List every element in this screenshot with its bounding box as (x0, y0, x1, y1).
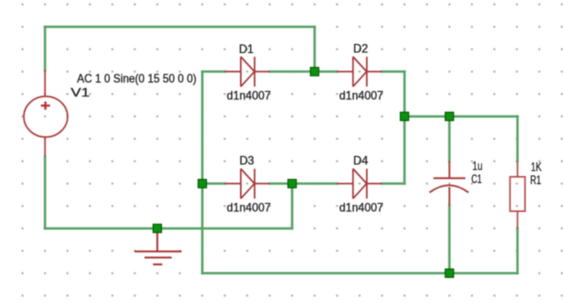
diode D1 (225, 57, 270, 87)
wire D2 cathode to corner (382, 70, 405, 72)
svg-text:C1: C1 (471, 172, 482, 186)
svg-text:1K: 1K (531, 160, 542, 174)
wire neutral rail up to D3/D4 junction (291, 184, 293, 229)
svg-text:d1n4007: d1n4007 (339, 89, 383, 103)
wire J1 to D2 anode (315, 70, 338, 72)
node ground junction (153, 224, 161, 232)
svg-text:D2: D2 (353, 42, 368, 56)
diode D3 (225, 169, 270, 199)
svg-text:AC 1 0 Sine(0 15 50 0 0): AC 1 0 Sine(0 15 50 0 0) (77, 72, 197, 86)
wire D4 corner up to node J2 (403, 116, 405, 183)
node C1 top junction (445, 112, 453, 120)
diode D2 (337, 57, 382, 87)
wire left bridge column D1 anode to D3 anode (201, 72, 203, 184)
capacitor C1 (430, 161, 469, 206)
wire C1 top (448, 116, 450, 161)
wire D2 corner down to node J2 (403, 72, 405, 117)
node D1/D3 anode junction (198, 179, 206, 187)
wire R1 top (516, 116, 518, 161)
wire bottom rail (202, 272, 517, 274)
wire positive output rail (405, 115, 518, 117)
node J1 (V1+ / D1 cathode / D2 anode) (310, 67, 318, 75)
svg-text:d1n4007: d1n4007 (339, 201, 383, 215)
wire top rail drop to node J1 (313, 27, 315, 72)
node J2 (D2/D4 cathodes to output rail) (400, 112, 408, 120)
wire D3/D4 junction to D4 anode (292, 182, 337, 184)
wire C1 bottom (448, 206, 450, 273)
wire top rail (45, 26, 315, 28)
svg-text:d1n4007: d1n4007 (227, 201, 271, 215)
V1 plus sign (41, 102, 50, 110)
wire D3 anode from junction (202, 182, 224, 184)
svg-text:R1: R1 (530, 173, 541, 187)
wire neutral rail (45, 227, 292, 229)
node C1 bottom junction (445, 269, 453, 277)
wire D4 cathode to corner (382, 182, 405, 184)
wire left bridge column down to bottom rail (201, 184, 203, 274)
wire to D1 anode (202, 70, 224, 72)
wire R1 bottom (516, 228, 518, 273)
svg-text:V1: V1 (71, 85, 90, 99)
svg-text:D1: D1 (239, 42, 254, 56)
resistor R1 (510, 161, 525, 228)
svg-text:D3: D3 (240, 154, 255, 168)
svg-text:D4: D4 (353, 153, 368, 167)
node D3 cathode / D4 anode junction (288, 179, 296, 187)
wire D1 cathode to J1 (270, 70, 315, 72)
svg-text:d1n4007: d1n4007 (227, 89, 271, 103)
wire D3 cathode to junction (270, 182, 292, 184)
ground symbol (135, 233, 182, 265)
voltage source V1 (24, 70, 68, 157)
wire V1 bottom (44, 157, 46, 228)
diode D4 (337, 169, 382, 199)
wire V1 top to top rail (44, 27, 46, 70)
